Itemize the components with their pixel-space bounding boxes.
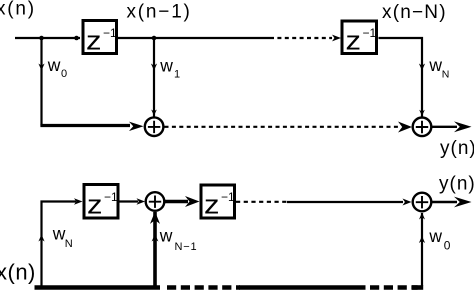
wire x(n) bus bottom dashed thick segment 2 bbox=[370, 285, 418, 290]
node junction B before delay U1 bbox=[74, 36, 79, 41]
adder S1 bbox=[145, 117, 164, 136]
wire x(n) bus bottom solid thick middle bbox=[239, 285, 366, 290]
wire delay U4 to adder S4 (dashed then solid) bbox=[236, 199, 412, 206]
svg-text:w: w bbox=[159, 226, 173, 246]
value label w1 bbox=[159, 55, 180, 80]
delay block U3 z^-1 bbox=[84, 185, 118, 220]
svg-text:w: w bbox=[428, 226, 442, 246]
wire tap w1 vertical bbox=[151, 38, 157, 117]
node junction A on input line bbox=[39, 36, 44, 41]
svg-text:w: w bbox=[428, 55, 442, 75]
adder S3 bbox=[146, 192, 165, 211]
svg-text:z: z bbox=[204, 190, 220, 220]
delay block U2 z^-1 bbox=[342, 21, 377, 56]
wire x(n) bus bottom solid thick left bbox=[35, 285, 161, 290]
adder S2 bbox=[413, 118, 432, 137]
wire delay U1 to delay U2 (solid then dashed) bbox=[118, 35, 341, 42]
svg-text:0: 0 bbox=[444, 239, 451, 253]
svg-text:y(n): y(n) bbox=[440, 138, 474, 159]
value label w0 bottom bbox=[428, 226, 450, 253]
wire tap w0 vertical bbox=[38, 38, 44, 126]
svg-text:N−1: N−1 bbox=[175, 241, 198, 253]
svg-text:−1: −1 bbox=[363, 26, 377, 40]
svg-text:x(n−1): x(n−1) bbox=[127, 2, 192, 23]
svg-text:z: z bbox=[346, 26, 362, 56]
wire tap w0 riser bottom bbox=[419, 213, 425, 287]
value label wN bottom bbox=[52, 224, 73, 251]
svg-text:−1: −1 bbox=[104, 190, 118, 204]
delay block U4 z^-1 bbox=[201, 185, 235, 220]
wire delay U2 output to tap wN bbox=[379, 37, 426, 117]
wire output y(n) bottom bbox=[432, 197, 472, 208]
svg-text:y(n): y(n) bbox=[439, 174, 474, 195]
svg-text:z: z bbox=[87, 190, 103, 220]
value label wN top bbox=[428, 55, 449, 81]
adder S4 bbox=[413, 193, 432, 212]
svg-text:w: w bbox=[47, 55, 61, 75]
wire tap w0 horizontal into adder S1 bbox=[40, 122, 143, 131]
svg-text:N: N bbox=[442, 69, 450, 81]
wire adder S3 to delay U4 thick bbox=[165, 196, 200, 207]
svg-text:w: w bbox=[52, 224, 66, 244]
node junction C after delay U1 bbox=[152, 36, 157, 41]
svg-text:x(n−N): x(n−N) bbox=[382, 2, 447, 23]
svg-text:N: N bbox=[65, 238, 73, 250]
wire output y(n) top bbox=[432, 121, 472, 132]
svg-text:0: 0 bbox=[61, 68, 67, 80]
svg-text:−1: −1 bbox=[103, 26, 117, 40]
svg-text:−1: −1 bbox=[221, 190, 235, 204]
svg-text:z: z bbox=[86, 26, 102, 56]
wire x(n) bus bottom dashed thick segment 1 bbox=[167, 285, 240, 290]
wire tap wN-1 riser thick bbox=[150, 212, 160, 287]
svg-text:w: w bbox=[159, 55, 173, 75]
svg-text:1: 1 bbox=[174, 69, 180, 81]
wire x(n) bus bottom corner at w0 riser bbox=[412, 285, 423, 290]
wire delay U3 to adder S3 bbox=[120, 198, 146, 204]
wire tap wN riser bottom diagram bbox=[38, 198, 82, 286]
wire input x(n) to delay U1 bbox=[15, 37, 80, 39]
wire adder S1 to adder S2 dashed bbox=[165, 122, 413, 133]
value label w0 top bbox=[47, 55, 67, 80]
delay block U1 z^-1 bbox=[83, 21, 117, 56]
value label wN-1 bbox=[159, 226, 198, 254]
svg-text:x(n): x(n) bbox=[0, 0, 36, 20]
svg-text:x(n): x(n) bbox=[0, 260, 36, 285]
